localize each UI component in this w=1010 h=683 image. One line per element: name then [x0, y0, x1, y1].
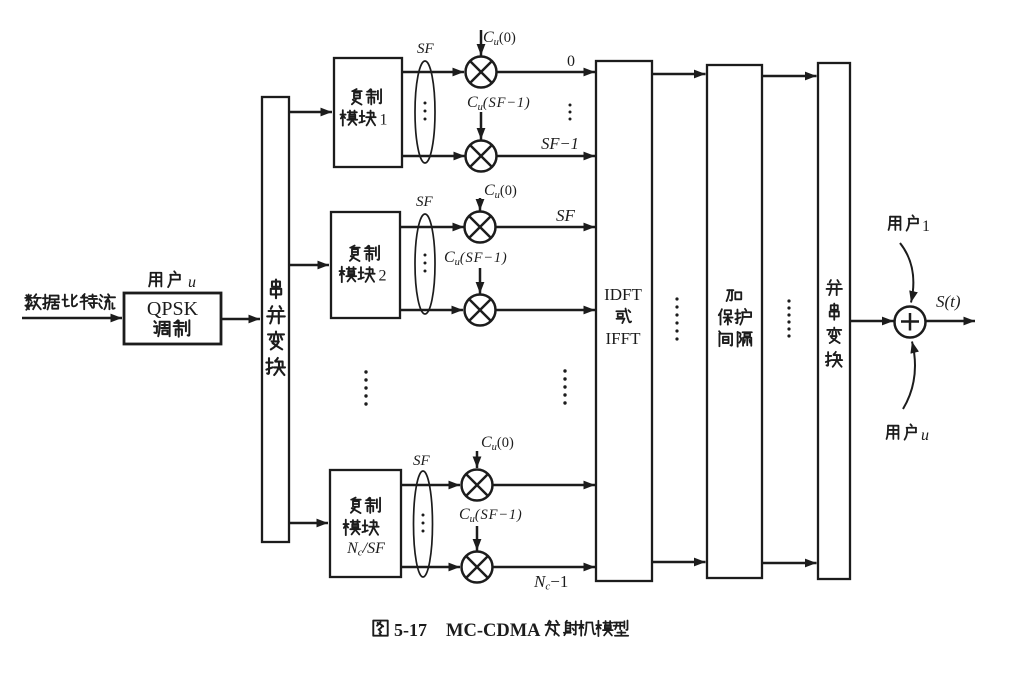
text 间隔	[719, 331, 752, 346]
svg-text:5-17: 5-17	[394, 620, 427, 640]
wire: guard to P/S bottom	[762, 562, 817, 565]
wire: module1 top output to multiplier M1	[402, 71, 464, 74]
wire: module3 bottom output to multiplier M6	[401, 566, 460, 569]
wire: P/S output to adder	[850, 320, 894, 323]
text 或 (or)	[616, 309, 631, 324]
ellipse: spreading fan SF group 1	[415, 61, 435, 163]
wire: module1 bottom output to multiplier M2	[402, 155, 465, 158]
wire: module2 bottom output to multiplier M4	[400, 309, 463, 312]
svg-text:IFFT: IFFT	[606, 329, 642, 348]
svg-text:Cu(0): Cu(0)	[483, 29, 516, 48]
block: QPSK modulator	[124, 293, 221, 344]
wire: M4 to IDFT input	[496, 309, 596, 312]
wire: module2 top output to multiplier M3	[400, 226, 464, 229]
wire: M5 to IDFT input	[493, 484, 596, 487]
svg-text:Nc/SF: Nc/SF	[346, 540, 385, 559]
dots inside ellipse group 3	[422, 514, 425, 533]
text 保护	[719, 309, 751, 325]
wire: M1 to IDFT input 0	[497, 71, 596, 74]
wire: S/P to copy module 2	[289, 264, 329, 267]
block: copy module 2 复制模块2	[331, 212, 400, 318]
text 复制 (module3 line1)	[351, 498, 380, 514]
dots: ellipsis between guard and P/S	[787, 299, 790, 337]
wire: S/P to copy module 1	[289, 111, 332, 114]
block: IDFT or IFFT	[596, 61, 652, 581]
svg-text:Nc−1: Nc−1	[533, 572, 568, 593]
ellipse: spreading fan SF group 3	[414, 471, 433, 577]
label: input data bit stream 数据比特流	[25, 294, 115, 310]
svg-text:SF: SF	[413, 453, 431, 469]
svg-text:IDFT: IDFT	[604, 285, 642, 304]
wire: adder output S(t)	[926, 320, 976, 323]
wire: IDFT to guard top	[652, 73, 706, 76]
dots inside ellipse group 1	[424, 102, 427, 121]
multiplier M3	[465, 212, 496, 243]
svg-text:Cu(0): Cu(0)	[481, 434, 514, 453]
wire: module3 top output to multiplier M5	[401, 484, 460, 487]
text 模块 (module1 line2)	[341, 110, 376, 125]
svg-text:Cu(SF−1): Cu(SF−1)	[459, 506, 523, 525]
multiplier M1	[466, 57, 497, 88]
svg-text:u: u	[921, 427, 929, 444]
text 模块 (module3 line2)	[344, 520, 379, 535]
text: 串并变换 vertical	[266, 280, 285, 375]
dots: ellipsis between SF row and group3 rows	[563, 369, 566, 404]
wire: code Cu(SF-1) down into M6	[476, 526, 479, 551]
block: add guard interval 加保护间隔	[707, 65, 762, 578]
svg-text:MC-CDMA: MC-CDMA	[446, 621, 541, 641]
wire: code Cu(SF-1) down into M4	[479, 268, 482, 294]
svg-text:Cu(0): Cu(0)	[484, 182, 517, 201]
wire: data stream into QPSK modulator	[22, 317, 122, 320]
wire: code Cu(0) down into M1	[480, 30, 483, 56]
text 复制 (module2 line1)	[350, 246, 379, 262]
multiplier M2	[466, 141, 497, 172]
wire: S/P to copy module Nc/SF	[289, 522, 328, 525]
wire: QPSK to serial-parallel converter	[221, 318, 260, 321]
text: 并串变换 vertical	[826, 280, 842, 367]
svg-text:Cu(SF−1): Cu(SF−1)	[444, 249, 508, 268]
dots: ellipsis between IDFT and guard	[675, 297, 678, 340]
label: user u 用户 bottom	[887, 424, 916, 439]
wire: M2 to IDFT input SF-1	[497, 155, 596, 158]
wire: curved arrow user u into adder	[903, 342, 915, 410]
wire: code Cu(0) down into M5	[476, 451, 479, 468]
wire: M6 to IDFT input Nc-1	[493, 566, 596, 569]
dots inside ellipse group 2	[424, 254, 427, 273]
svg-text:u: u	[188, 274, 196, 291]
block: parallel-to-serial converter 并串变换	[818, 63, 850, 579]
caption: 图 (figure)	[373, 621, 387, 636]
text 模块 (module2 line2)	[340, 267, 375, 282]
block: copy module 1 复制模块1	[334, 58, 402, 167]
text 复制 (module1 line1)	[352, 89, 381, 105]
wire: code Cu(SF-1) down into M2	[480, 112, 483, 140]
svg-text:SF−1: SF−1	[541, 134, 579, 153]
block: copy module Nc/SF 复制模块	[330, 470, 401, 577]
dots between row0 and row SF-1	[569, 104, 572, 121]
svg-text:SF: SF	[556, 206, 576, 225]
wire: IDFT to guard bottom	[652, 561, 706, 564]
ellipse: spreading fan SF group 2	[415, 214, 435, 314]
multiplier M4	[465, 295, 496, 326]
text: QPSK 调制 modulate	[154, 320, 189, 337]
svg-text:QPSK: QPSK	[147, 298, 199, 320]
wire: M3 to IDFT input SF	[496, 226, 596, 229]
adder: summation node	[895, 307, 926, 338]
text 加	[727, 290, 742, 301]
wire: curved arrow user 1 into adder	[900, 243, 913, 303]
svg-text:0: 0	[567, 53, 575, 70]
label: user 1 用户	[889, 215, 918, 230]
multiplier M5	[462, 470, 493, 501]
wire: code Cu(0) down into M3	[479, 198, 482, 211]
svg-text:Cu(SF−1): Cu(SF−1)	[467, 94, 531, 113]
svg-text:S(t): S(t)	[936, 292, 961, 311]
multiplier M6	[462, 552, 493, 583]
block: serial-to-parallel converter 串并变换	[262, 97, 289, 542]
svg-text:2: 2	[379, 268, 387, 285]
label: user u 用户	[149, 271, 180, 287]
svg-text:1: 1	[922, 218, 930, 235]
caption: 发射机模型 transmitter model	[545, 621, 628, 637]
svg-text:SF: SF	[416, 194, 434, 210]
svg-text:SF: SF	[417, 41, 435, 57]
dots: vertical ellipsis between copy module 2 and Nc/SF	[364, 370, 367, 405]
wire: guard to P/S top	[762, 75, 817, 78]
svg-text:1: 1	[380, 112, 388, 129]
